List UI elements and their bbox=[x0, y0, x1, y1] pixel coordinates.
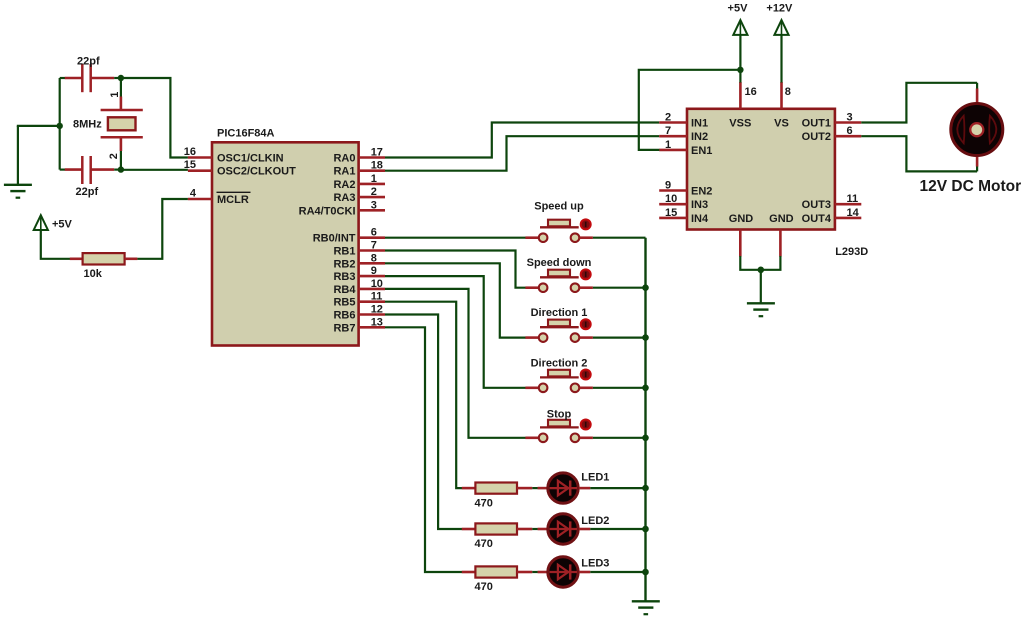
svg-text:10k: 10k bbox=[84, 268, 103, 280]
wire Direction 1 to bus bbox=[593, 337, 646, 339]
pin 16 VSS stub bbox=[739, 82, 742, 109]
wire Stop to bus bbox=[593, 437, 646, 439]
pin name RA0 bbox=[333, 153, 355, 165]
svg-text:8: 8 bbox=[785, 86, 791, 98]
pin name IN1 bbox=[691, 118, 708, 130]
IC U1 PIC16F84A body bbox=[212, 142, 359, 345]
ground (crystal circuit) bbox=[4, 126, 32, 198]
pin number 11 bbox=[371, 291, 383, 303]
svg-text:PIC16F84A: PIC16F84A bbox=[217, 127, 275, 139]
svg-text:+5V: +5V bbox=[728, 3, 749, 15]
power +5V (reset pull-up) bbox=[34, 215, 48, 230]
label crystal pin number 2 bbox=[108, 153, 120, 159]
svg-text:L293D: L293D bbox=[835, 246, 868, 258]
svg-text:VSS: VSS bbox=[729, 118, 751, 130]
svg-text:12V DC Motor: 12V DC Motor bbox=[920, 178, 1022, 195]
svg-text:MCLR: MCLR bbox=[217, 194, 249, 206]
svg-text:RB7: RB7 bbox=[333, 322, 355, 334]
wire RB3 to Direction 2 button bbox=[385, 276, 526, 388]
svg-text:470: 470 bbox=[475, 497, 493, 509]
pin GND stub (left) bbox=[739, 230, 742, 257]
resistor R1 10k bbox=[70, 253, 138, 264]
wire R4 to LED3 bbox=[532, 571, 538, 573]
svg-text:17: 17 bbox=[371, 147, 383, 159]
node bus junction y=437 bbox=[642, 435, 649, 442]
svg-text:OUT4: OUT4 bbox=[802, 213, 832, 225]
LED LED2 bbox=[538, 514, 591, 544]
svg-text:RB4: RB4 bbox=[333, 284, 356, 296]
wire Speed down to bus bbox=[593, 287, 646, 289]
svg-text:OUT3: OUT3 bbox=[802, 199, 831, 211]
pin 17 RA0 stub bbox=[359, 156, 385, 159]
LED LED3 bbox=[538, 557, 591, 587]
pin 12 RB6 stub bbox=[359, 313, 385, 316]
wire left rail (C1 to C2) bbox=[59, 78, 61, 170]
svg-text:RA2: RA2 bbox=[333, 179, 355, 191]
label button Speed up bbox=[534, 200, 584, 212]
svg-text:OUT2: OUT2 bbox=[802, 131, 831, 143]
pin 3 OUT1 stub bbox=[835, 121, 861, 124]
svg-text:14: 14 bbox=[847, 207, 860, 219]
power +5V (VSS supply) bbox=[733, 20, 747, 82]
svg-text:10: 10 bbox=[371, 278, 383, 290]
pin 16 OSC1/CLKIN stub bbox=[188, 156, 212, 159]
node +5V junction bbox=[737, 67, 743, 73]
node GND junction bbox=[758, 267, 765, 274]
svg-text:OSC1/CLKIN: OSC1/CLKIN bbox=[217, 153, 284, 165]
wire RA1 to IN2 bbox=[385, 136, 659, 171]
pin name MCLR bbox=[217, 192, 251, 206]
pin number 9 bbox=[371, 265, 377, 277]
pin name IN4 bbox=[691, 213, 709, 225]
label button Direction 2 bbox=[531, 358, 588, 370]
wire ground to left rail node bbox=[17, 125, 60, 127]
pin 8 RB2 stub bbox=[359, 262, 385, 265]
pin number 8 bbox=[371, 252, 377, 264]
svg-text:3: 3 bbox=[371, 199, 377, 211]
svg-text:9: 9 bbox=[665, 180, 671, 192]
pin 4 MCLR stub bbox=[188, 198, 212, 201]
wire +5V to R1 bbox=[41, 230, 70, 259]
pin number 18 bbox=[371, 160, 383, 172]
crystal X1 8MHz bbox=[101, 81, 143, 170]
wire crystal node to OSC1/CLKIN pin 16 bbox=[121, 78, 188, 158]
svg-text:1: 1 bbox=[109, 92, 121, 98]
svg-text:6: 6 bbox=[847, 125, 853, 137]
wire LED3 to bus bbox=[590, 571, 645, 573]
pin name RB0/INT bbox=[313, 233, 356, 245]
svg-text:Speed down: Speed down bbox=[527, 257, 592, 269]
pin number 7 bbox=[371, 240, 377, 252]
wire Speed up to bus bbox=[593, 237, 646, 239]
svg-text:1: 1 bbox=[371, 173, 377, 185]
svg-text:16: 16 bbox=[184, 146, 196, 158]
svg-text:RB3: RB3 bbox=[333, 271, 355, 283]
svg-text:+12V: +12V bbox=[766, 3, 793, 15]
svg-text:LED1: LED1 bbox=[581, 471, 609, 483]
label button Direction 1 bbox=[531, 307, 588, 319]
svg-text:IN2: IN2 bbox=[691, 131, 708, 143]
label LED1 bbox=[581, 471, 609, 483]
pin name RA1 bbox=[333, 166, 355, 178]
svg-text:RA1: RA1 bbox=[333, 166, 355, 178]
label R1 value 10k bbox=[84, 268, 103, 280]
svg-text:IN1: IN1 bbox=[691, 118, 708, 130]
label button Speed down bbox=[527, 257, 592, 269]
pin name RB6 bbox=[333, 310, 355, 322]
svg-text:15: 15 bbox=[184, 159, 196, 171]
pin name RB2 bbox=[333, 258, 355, 270]
svg-text:7: 7 bbox=[371, 240, 377, 252]
wire LED1 to bus bbox=[590, 487, 645, 489]
capacitor C1 22pf bbox=[60, 64, 121, 92]
wire R1 to MCLR pin 4 bbox=[137, 199, 188, 259]
label R2 value 470 bbox=[475, 497, 493, 509]
pin number 6 bbox=[847, 125, 853, 137]
pin number 14 bbox=[847, 207, 860, 219]
svg-text:10: 10 bbox=[665, 193, 677, 205]
pin number 11 bbox=[847, 193, 859, 205]
pin 6 RB0/INT stub bbox=[359, 236, 385, 239]
pin 1 EN1 stub bbox=[659, 149, 687, 152]
button Direction 2 bbox=[525, 370, 593, 393]
pin 2 RA3 stub bbox=[359, 196, 385, 199]
svg-text:Direction 2: Direction 2 bbox=[531, 358, 588, 370]
pin number 6 bbox=[371, 227, 377, 239]
node bus junction y=572 bbox=[642, 569, 649, 576]
pin name RA4/T0CKI bbox=[299, 205, 356, 217]
wire OUT2 to motor bbox=[861, 136, 977, 171]
pin 2 IN1 stub bbox=[659, 121, 687, 124]
pin number 16 bbox=[745, 86, 757, 98]
pin 14 OUT4 stub bbox=[835, 217, 861, 220]
svg-text:+5V: +5V bbox=[52, 219, 73, 231]
pin 9 EN2 stub bbox=[659, 189, 687, 192]
svg-text:GND: GND bbox=[769, 213, 794, 225]
label 12V DC Motor bbox=[920, 178, 1022, 195]
svg-text:3: 3 bbox=[847, 112, 853, 124]
pin name IN3 bbox=[691, 199, 708, 211]
pin number 3 bbox=[847, 112, 853, 124]
button Speed down bbox=[525, 269, 593, 292]
wire crystal node to OSC2/CLKOUT pin 15 bbox=[121, 169, 188, 171]
wire ground bus (buttons and LEDs) bbox=[644, 238, 646, 601]
svg-text:6: 6 bbox=[371, 227, 377, 239]
node bus junction y=387 bbox=[642, 385, 649, 392]
svg-text:RA4/T0CKI: RA4/T0CKI bbox=[299, 205, 356, 217]
capacitor C2 22pf bbox=[60, 156, 121, 184]
svg-text:2: 2 bbox=[371, 186, 377, 198]
svg-text:22pf: 22pf bbox=[77, 56, 100, 68]
svg-text:13: 13 bbox=[371, 316, 383, 328]
svg-text:RB5: RB5 bbox=[333, 297, 355, 309]
pin 13 RB7 stub bbox=[359, 326, 385, 329]
node crystal pin 2 junction bbox=[118, 166, 124, 172]
pin 10 IN3 stub bbox=[659, 203, 687, 206]
label LED2 bbox=[581, 515, 609, 527]
pin name RB4 bbox=[333, 284, 356, 296]
pin name RB7 bbox=[333, 322, 355, 334]
wire RB7 to R4/LED3 bbox=[385, 327, 462, 572]
wire RB5 to R2/LED1 bbox=[385, 302, 462, 488]
node left rail junction bbox=[57, 123, 63, 129]
ground (L293D) bbox=[747, 303, 775, 316]
svg-text:9: 9 bbox=[371, 265, 377, 277]
wire GND pins to ground bbox=[740, 256, 780, 303]
svg-text:GND: GND bbox=[729, 213, 754, 225]
pin number 2 bbox=[665, 112, 671, 124]
pin 11 OUT3 stub bbox=[835, 203, 861, 206]
wire OUT1 to motor bbox=[861, 83, 977, 123]
pin name OSC2/CLKOUT bbox=[217, 166, 296, 178]
pin 9 RB3 stub bbox=[359, 275, 385, 278]
label U1 PIC16F84A bbox=[217, 127, 275, 139]
label +5V bbox=[728, 3, 749, 15]
svg-text:1: 1 bbox=[665, 139, 671, 151]
pin name EN1 bbox=[691, 145, 712, 157]
label crystal value 8MHz bbox=[73, 119, 102, 131]
pin 15 OSC2/CLKOUT stub bbox=[188, 169, 212, 172]
pin number 7 bbox=[665, 125, 671, 137]
button Speed up bbox=[525, 219, 593, 242]
pin name RB3 bbox=[333, 271, 355, 283]
svg-text:RB1: RB1 bbox=[333, 246, 355, 258]
svg-text:RB2: RB2 bbox=[333, 258, 355, 270]
label C1 value 22pf bbox=[77, 56, 100, 68]
pin name EN2 bbox=[691, 186, 712, 198]
label button Stop bbox=[547, 409, 572, 421]
button Direction 1 bbox=[525, 319, 593, 342]
pin number 15 bbox=[184, 159, 196, 171]
svg-text:Speed up: Speed up bbox=[534, 200, 584, 212]
wire RB4 to Stop button bbox=[385, 289, 526, 438]
svg-text:2: 2 bbox=[108, 153, 120, 159]
wire +5V to EN1 bbox=[639, 70, 741, 150]
pin name OSC1/CLKIN bbox=[217, 153, 284, 165]
svg-text:16: 16 bbox=[745, 86, 757, 98]
label LED3 bbox=[581, 558, 609, 570]
svg-text:RA3: RA3 bbox=[333, 192, 355, 204]
svg-text:12: 12 bbox=[371, 304, 383, 316]
svg-text:8MHz: 8MHz bbox=[73, 119, 102, 131]
pin name GND (left) bbox=[729, 213, 754, 225]
wire RB6 to R3/LED2 bbox=[385, 315, 462, 530]
svg-text:15: 15 bbox=[665, 207, 677, 219]
pin 11 RB5 stub bbox=[359, 300, 385, 303]
pin name RB5 bbox=[333, 297, 355, 309]
pin 7 RB1 stub bbox=[359, 249, 385, 252]
pin number 15 bbox=[665, 207, 677, 219]
svg-text:22pf: 22pf bbox=[76, 186, 99, 198]
pin name RA3 bbox=[333, 192, 355, 204]
svg-text:4: 4 bbox=[190, 188, 197, 200]
pin 3 RA4/T0CKI stub bbox=[359, 209, 385, 212]
motor M1 12V DC Motor bbox=[951, 104, 1003, 156]
pin 8 VS stub bbox=[780, 82, 783, 109]
pin 15 IN4 stub bbox=[659, 217, 687, 220]
pin name OUT2 bbox=[802, 131, 831, 143]
pin number 16 bbox=[184, 146, 196, 158]
LED LED1 bbox=[538, 473, 591, 503]
wire LED2 to bus bbox=[590, 528, 645, 530]
wire RB2 to Direction 1 button bbox=[385, 263, 526, 337]
button Stop bbox=[525, 420, 593, 443]
resistor R3 470 bbox=[462, 523, 533, 534]
svg-text:LED3: LED3 bbox=[581, 558, 609, 570]
svg-text:RA0: RA0 bbox=[333, 153, 355, 165]
resistor R4 470 bbox=[462, 566, 533, 577]
wire R3 to LED2 bbox=[532, 528, 538, 530]
wire RB0 to Speed up button bbox=[385, 237, 526, 239]
pin number 10 bbox=[665, 193, 677, 205]
svg-text:470: 470 bbox=[475, 538, 493, 550]
pin 1 RA2 stub bbox=[359, 183, 385, 186]
pin 10 RB4 stub bbox=[359, 288, 385, 291]
label R3 value 470 bbox=[475, 538, 493, 550]
wire R2 to LED1 bbox=[532, 487, 538, 489]
pin number 9 bbox=[665, 180, 671, 192]
svg-text:EN2: EN2 bbox=[691, 186, 712, 198]
svg-text:IN3: IN3 bbox=[691, 199, 708, 211]
svg-text:RB0/INT: RB0/INT bbox=[313, 233, 356, 245]
pin name OUT3 bbox=[802, 199, 831, 211]
wire RA0 to IN1 bbox=[385, 123, 659, 158]
pin number 4 bbox=[190, 188, 197, 200]
pin number 17 bbox=[371, 147, 383, 159]
pin number 8 bbox=[785, 86, 791, 98]
ground (button/LED bus) bbox=[632, 601, 660, 614]
pin name OUT4 bbox=[802, 213, 832, 225]
svg-text:OSC2/CLKOUT: OSC2/CLKOUT bbox=[217, 166, 296, 178]
node bus junction y=337 bbox=[642, 334, 649, 341]
pin name RB1 bbox=[333, 246, 355, 258]
svg-text:VS: VS bbox=[774, 118, 789, 130]
svg-text:11: 11 bbox=[847, 193, 859, 205]
svg-text:Stop: Stop bbox=[547, 409, 572, 421]
svg-text:7: 7 bbox=[665, 125, 671, 137]
label crystal pin number 1 bbox=[109, 92, 121, 98]
node bus junction y=529 bbox=[642, 526, 649, 533]
pin GND stub (right) bbox=[779, 230, 782, 257]
svg-text:OUT1: OUT1 bbox=[802, 118, 831, 130]
label R4 value 470 bbox=[475, 581, 493, 593]
svg-text:11: 11 bbox=[371, 291, 383, 303]
node bus junction y=287 bbox=[642, 284, 649, 291]
svg-text:2: 2 bbox=[665, 112, 671, 124]
label +12V bbox=[766, 3, 793, 15]
svg-text:EN1: EN1 bbox=[691, 145, 712, 157]
wire RB1 to Speed down button bbox=[385, 251, 526, 288]
pin 18 RA1 stub bbox=[359, 169, 385, 172]
svg-text:470: 470 bbox=[475, 581, 493, 593]
svg-text:LED2: LED2 bbox=[581, 515, 609, 527]
pin number 13 bbox=[371, 316, 383, 328]
pin number 1 bbox=[665, 139, 671, 151]
svg-text:IN4: IN4 bbox=[691, 213, 709, 225]
resistor R2 470 bbox=[462, 483, 533, 494]
label +5V bbox=[52, 219, 73, 231]
svg-text:Direction 1: Direction 1 bbox=[531, 307, 588, 319]
pin name GND (right) bbox=[769, 213, 794, 225]
pin number 12 bbox=[371, 304, 383, 316]
pin number 2 bbox=[371, 186, 377, 198]
pin name IN2 bbox=[691, 131, 708, 143]
pin name RA2 bbox=[333, 179, 355, 191]
pin number 1 bbox=[371, 173, 377, 185]
wire Direction 2 to bus bbox=[593, 387, 646, 389]
pin 6 OUT2 stub bbox=[835, 135, 861, 138]
pin name VS bbox=[774, 118, 789, 130]
IC U2 L293D body bbox=[687, 109, 835, 230]
pin number 10 bbox=[371, 278, 383, 290]
svg-text:8: 8 bbox=[371, 252, 377, 264]
power +12V (VS supply) bbox=[774, 20, 788, 82]
pin number 3 bbox=[371, 199, 377, 211]
svg-text:18: 18 bbox=[371, 160, 383, 172]
pin name VSS bbox=[729, 118, 751, 130]
node crystal pin 1 junction bbox=[118, 75, 124, 81]
svg-text:RB6: RB6 bbox=[333, 310, 355, 322]
pin 7 IN2 stub bbox=[659, 135, 687, 138]
pin name OUT1 bbox=[802, 118, 831, 130]
label U2 L293D bbox=[835, 246, 868, 258]
label C2 value 22pf bbox=[76, 186, 99, 198]
node bus junction y=488 bbox=[642, 485, 649, 492]
